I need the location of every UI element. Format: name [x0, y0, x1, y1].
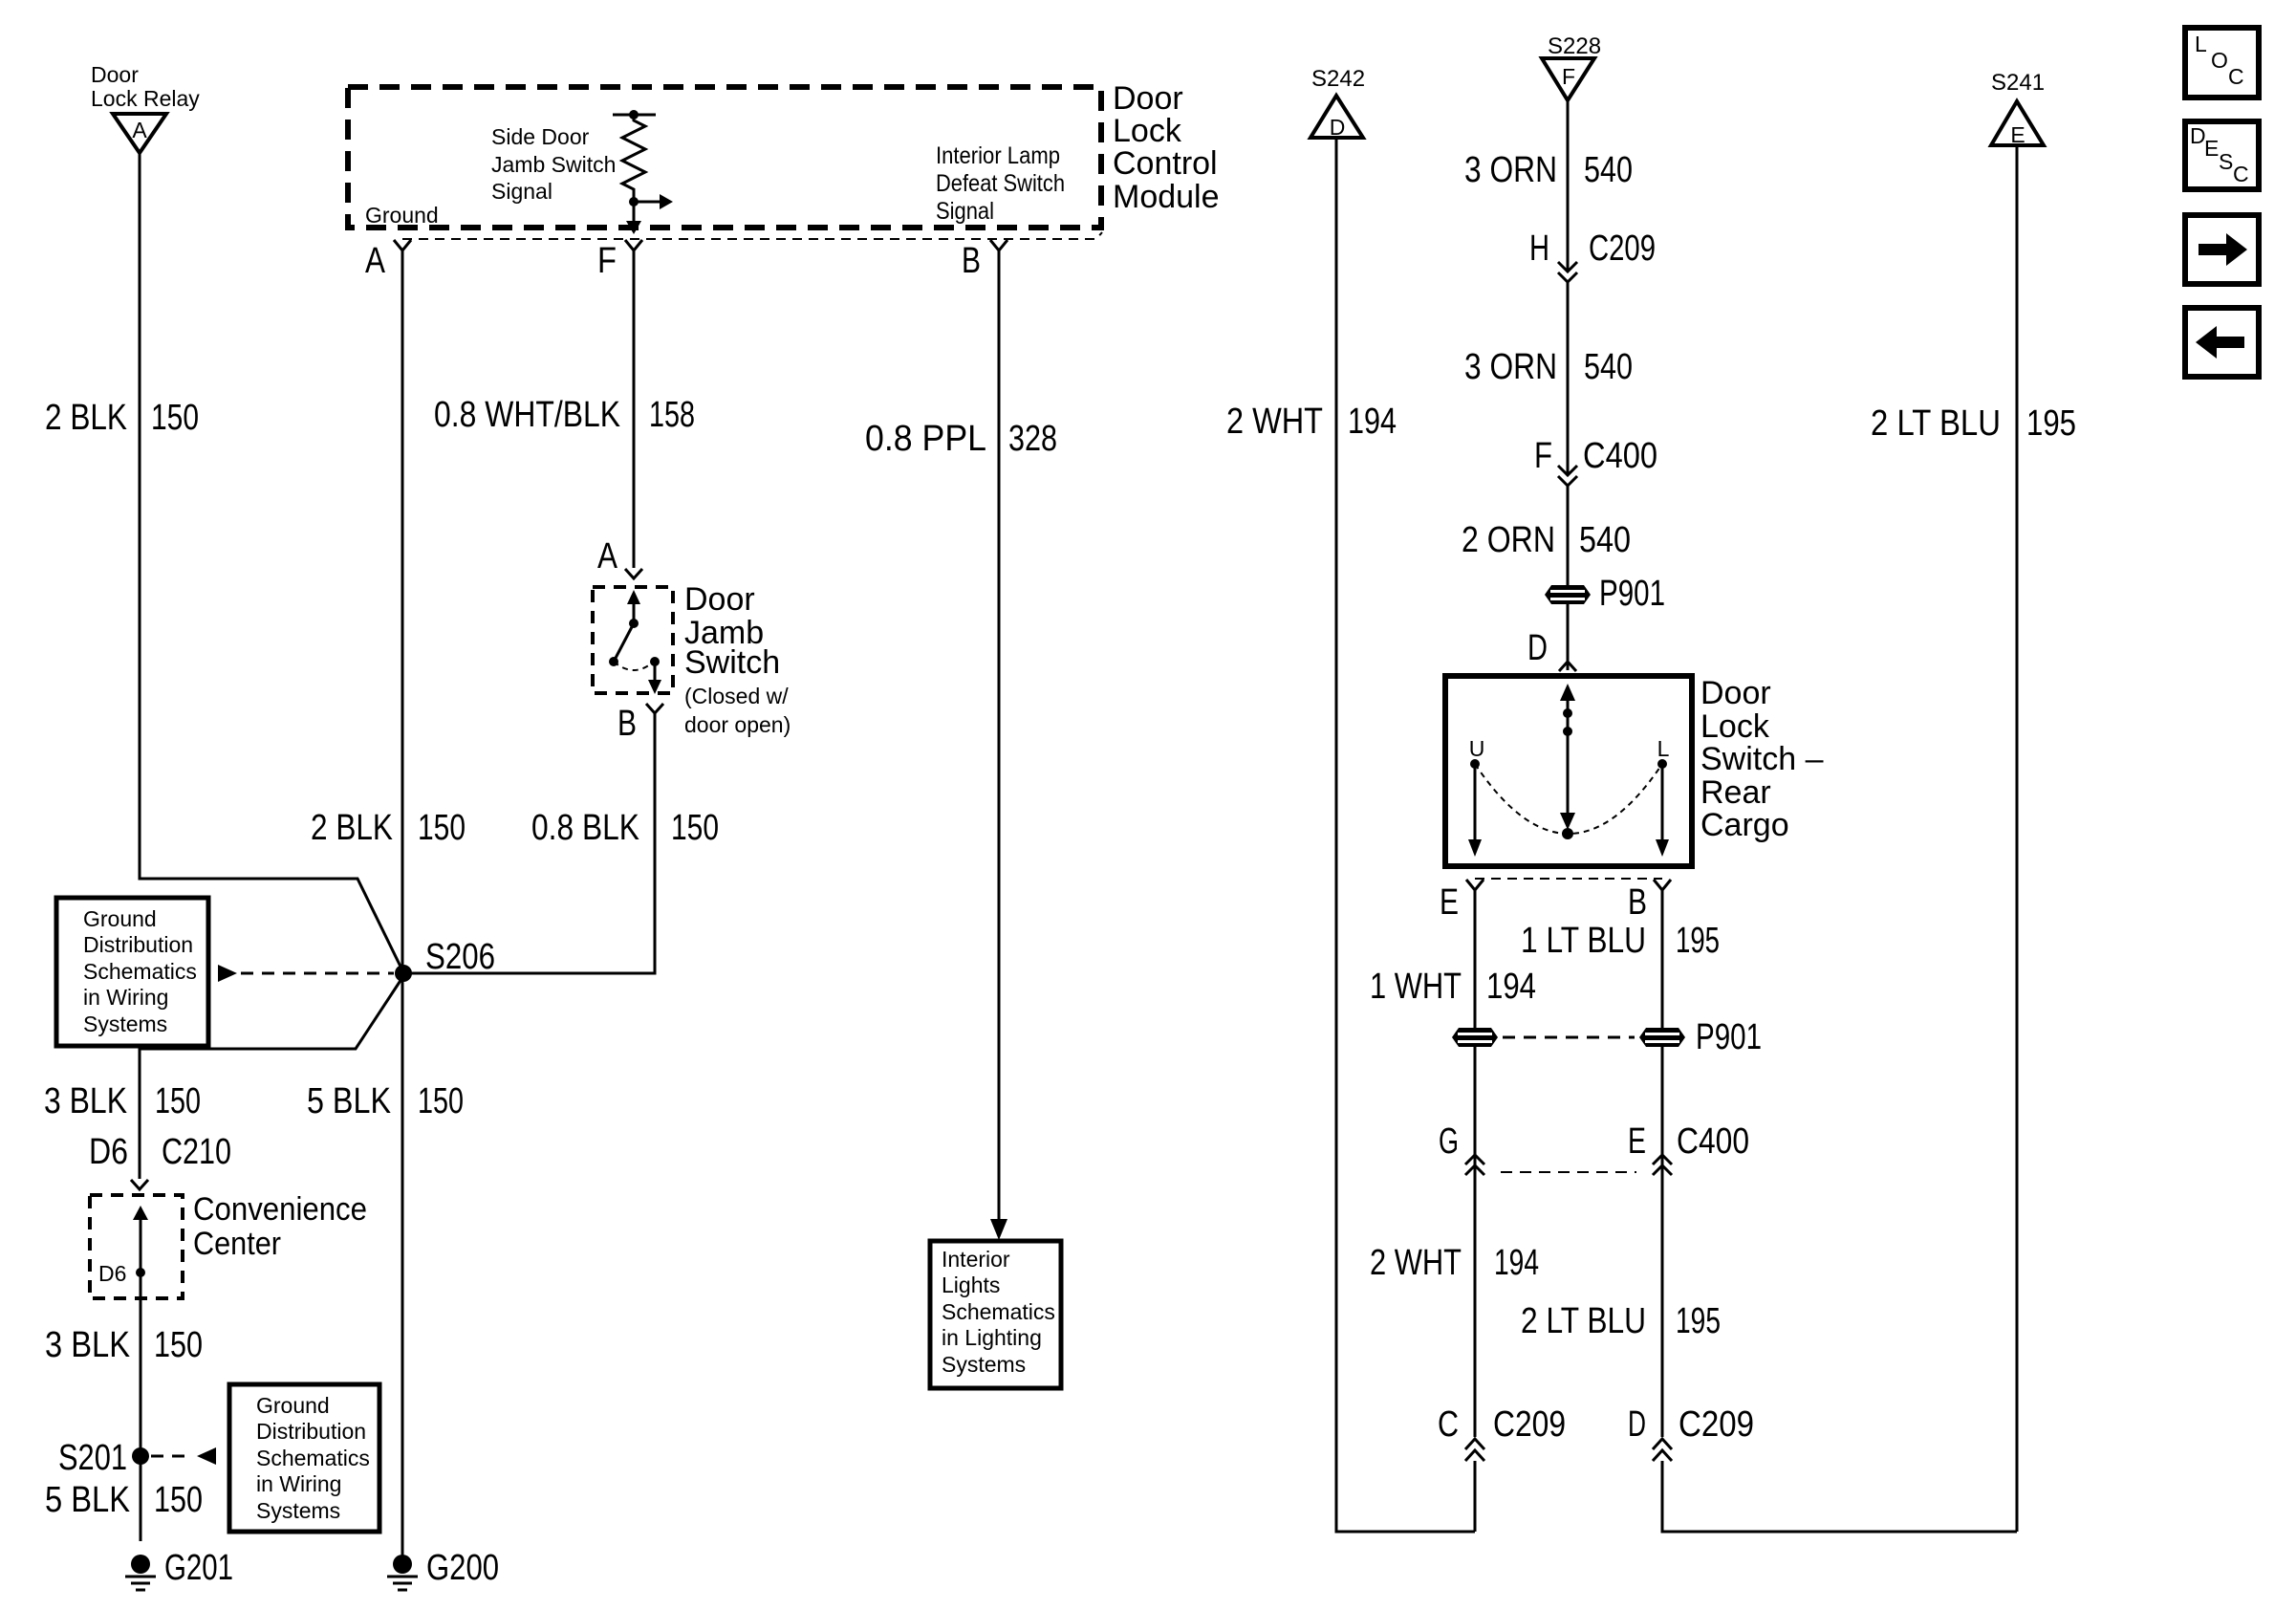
svg-text:S241: S241: [1991, 70, 2045, 96]
module pin B connector: [962, 240, 1007, 281]
Convenience Center dashed box: [90, 1195, 183, 1298]
svg-text:540: 540: [1584, 150, 1633, 190]
connector C210 pin D6: [89, 1132, 231, 1189]
wire 2 ORN 540: [1567, 486, 1570, 585]
svg-text:3 BLK: 3 BLK: [45, 1325, 130, 1365]
wire from C209 pin D to S241 loop: [1662, 1461, 2017, 1532]
wire B (0.8 PPL) from module to interior lights: [998, 250, 1001, 1220]
svg-text:in Wiring: in Wiring: [256, 1471, 341, 1496]
switch pin E: [1440, 880, 1484, 923]
Door Lock Control Module dashed box: [348, 87, 1101, 228]
svg-text:Lock Relay: Lock Relay: [91, 86, 200, 111]
connector C209 pin H: [1529, 228, 1656, 282]
Interior Lights Schematics box: [930, 1241, 1061, 1388]
door jamb switch pin B: [617, 704, 663, 744]
label 3 BLK 150 (below convenience center): [45, 1325, 203, 1365]
svg-text:Switch –: Switch –: [1700, 741, 1824, 777]
connector C400 pin F: [1534, 436, 1657, 486]
svg-text:540: 540: [1579, 520, 1631, 560]
Door Lock Relay connector triangle A: [113, 114, 166, 153]
svg-text:Systems: Systems: [256, 1498, 340, 1523]
svg-text:E: E: [2204, 136, 2219, 161]
arrowhead into interior lights box: [990, 1219, 1007, 1240]
svg-text:E: E: [1628, 1121, 1646, 1162]
svg-text:3 ORN: 3 ORN: [1464, 347, 1557, 387]
svg-text:Ground: Ground: [83, 906, 157, 931]
label 3 ORN 540 (lower): [1464, 347, 1633, 387]
wire 2 LT BLU below P901: [1661, 1047, 1664, 1437]
wire 2 BLK 150 from Door Lock Relay: [140, 153, 402, 970]
splice reference S241: [1991, 70, 2045, 147]
svg-text:D6: D6: [98, 1261, 126, 1286]
svg-text:2 BLK: 2 BLK: [311, 808, 393, 848]
svg-text:150: 150: [155, 1081, 201, 1121]
svg-text:E: E: [2010, 122, 2025, 147]
svg-text:G201: G201: [164, 1548, 233, 1588]
svg-text:Module: Module: [1113, 179, 1220, 215]
svg-text:328: 328: [1008, 419, 1057, 459]
door lock switch pin D: [1527, 628, 1576, 671]
svg-text:195: 195: [1676, 1301, 1721, 1341]
svg-text:Door: Door: [1113, 80, 1183, 117]
svg-text:D: D: [1527, 628, 1548, 668]
svg-text:in Wiring: in Wiring: [83, 985, 168, 1010]
wire from C209 pin C to S242 loop: [1474, 1461, 1477, 1532]
svg-text:C209: C209: [1589, 228, 1656, 269]
svg-text:2 LT BLU: 2 LT BLU: [1521, 1301, 1646, 1341]
splice reference S242: [1310, 66, 1365, 140]
door lock switch common blade: [1560, 684, 1575, 839]
door lock switch contact U: [1468, 736, 1484, 857]
svg-text:C210: C210: [162, 1132, 231, 1172]
ground distribution reference box (upper): [56, 898, 208, 1046]
svg-text:Convenience: Convenience: [193, 1191, 367, 1228]
svg-text:Rear: Rear: [1700, 774, 1771, 811]
module pin strip dashed line: [402, 232, 1102, 239]
svg-text:150: 150: [418, 1081, 464, 1121]
svg-text:150: 150: [671, 808, 719, 848]
svg-text:B: B: [962, 241, 981, 281]
svg-text:S201: S201: [58, 1438, 127, 1478]
wire 1 LT BLU from switch pin B: [1661, 890, 1664, 1028]
svg-text:0.8 WHT/BLK: 0.8 WHT/BLK: [434, 395, 620, 435]
label 2 BLK 150 (wire A): [311, 808, 466, 848]
svg-text:1 WHT: 1 WHT: [1370, 967, 1462, 1007]
Door Jamb Switch dashed box: [593, 587, 673, 693]
Door Lock Switch - Rear Cargo label: [1700, 675, 1824, 843]
svg-text:Ground: Ground: [256, 1393, 330, 1418]
svg-text:194: 194: [1494, 1243, 1539, 1283]
label 0.8 PPL 328: [865, 419, 1057, 459]
grommet P901 (right): [1639, 1017, 1762, 1057]
wire through convenience center with up arrow: [98, 1206, 148, 1541]
door jamb switch pin A: [597, 536, 642, 578]
svg-text:Lights: Lights: [942, 1273, 1000, 1297]
dashed link C400: [1501, 1171, 1636, 1173]
wire 1 WHT from switch pin E: [1474, 890, 1477, 1028]
svg-text:A: A: [132, 118, 147, 142]
svg-text:150: 150: [151, 398, 199, 438]
grommet P901 (top): [1545, 574, 1665, 614]
svg-text:2 BLK: 2 BLK: [45, 398, 127, 438]
wire from P901 to door lock switch pin D: [1567, 604, 1570, 670]
svg-text:Center: Center: [193, 1226, 281, 1262]
svg-text:C: C: [2228, 64, 2244, 89]
svg-text:A: A: [365, 241, 386, 281]
svg-text:U: U: [1469, 736, 1485, 761]
svg-text:C: C: [1438, 1404, 1459, 1445]
svg-text:door open): door open): [684, 712, 791, 737]
svg-text:Distribution: Distribution: [83, 932, 193, 957]
wire F from module pin to door jamb switch: [633, 250, 636, 568]
svg-text:C400: C400: [1583, 436, 1657, 476]
connector C209 pin C: [1438, 1404, 1566, 1461]
svg-text:2 LT BLU: 2 LT BLU: [1871, 403, 2001, 444]
door lock switch travel arc: [1475, 764, 1662, 834]
splice reference S228: [1542, 33, 1601, 100]
module pin F connector: [597, 240, 642, 281]
Door Lock Relay label: [91, 62, 200, 111]
legend LOC box: [2185, 28, 2259, 98]
svg-text:2 WHT: 2 WHT: [1226, 402, 1323, 442]
svg-text:Schematics: Schematics: [83, 959, 197, 984]
svg-text:Door: Door: [91, 62, 139, 87]
svg-text:S242: S242: [1311, 66, 1365, 92]
svg-text:(Closed w/: (Closed w/: [684, 684, 789, 708]
svg-text:C400: C400: [1677, 1121, 1749, 1162]
svg-text:C: C: [2233, 162, 2249, 186]
svg-text:G: G: [1439, 1121, 1459, 1162]
svg-text:3 BLK: 3 BLK: [44, 1081, 127, 1121]
svg-text:Schematics: Schematics: [942, 1299, 1055, 1324]
svg-text:S206: S206: [425, 937, 495, 977]
svg-text:E: E: [1440, 882, 1459, 923]
svg-text:H: H: [1529, 228, 1549, 269]
module pin A connector: [365, 240, 411, 281]
svg-text:B: B: [1628, 882, 1647, 923]
svg-text:Cargo: Cargo: [1700, 807, 1789, 843]
ground distribution reference box (lower): [229, 1384, 379, 1532]
label 1 WHT 194: [1370, 967, 1536, 1007]
svg-text:2 ORN: 2 ORN: [1462, 520, 1555, 560]
svg-text:F: F: [1534, 436, 1552, 476]
svg-text:Defeat Switch: Defeat Switch: [936, 170, 1065, 197]
svg-text:150: 150: [154, 1480, 203, 1520]
label 2 BLK 150 (relay wire): [45, 398, 199, 438]
Door Lock Control Module label: [1113, 80, 1220, 215]
switch pin strip dashed line: [1475, 878, 1662, 880]
svg-text:Distribution: Distribution: [256, 1419, 366, 1444]
svg-text:2 WHT: 2 WHT: [1370, 1243, 1462, 1283]
label 2 WHT 194 (lower): [1370, 1243, 1539, 1283]
svg-text:Door: Door: [684, 581, 755, 618]
svg-text:1 LT BLU: 1 LT BLU: [1521, 921, 1646, 961]
svg-text:Signal: Signal: [491, 179, 552, 204]
wire 2 LT BLU 195 from S241: [2016, 145, 2019, 1532]
svg-text:Ground: Ground: [365, 203, 439, 228]
svg-text:C209: C209: [1679, 1404, 1754, 1445]
svg-text:D6: D6: [89, 1132, 128, 1172]
label 2 ORN 540: [1462, 520, 1631, 560]
svg-text:Jamb Switch: Jamb Switch: [491, 152, 616, 177]
svg-text:C209: C209: [1493, 1404, 1566, 1445]
svg-text:D: D: [1628, 1404, 1646, 1445]
svg-text:in Lighting: in Lighting: [942, 1325, 1042, 1350]
svg-text:0.8 PPL: 0.8 PPL: [865, 419, 986, 459]
svg-text:S: S: [2219, 149, 2233, 174]
wire 3 ORN 540 from S228: [1567, 100, 1570, 271]
svg-text:Control: Control: [1113, 145, 1218, 182]
svg-text:S228: S228: [1548, 33, 1601, 59]
label 0.8 WHT/BLK 158: [434, 395, 695, 435]
connector C209 pin D: [1628, 1404, 1754, 1461]
svg-text:P901: P901: [1599, 574, 1665, 614]
wire 0.8 BLK 150 from jamb switch to S206: [403, 713, 655, 973]
svg-text:L: L: [1657, 736, 1670, 761]
ground G200: [387, 1548, 499, 1590]
svg-text:D: D: [1330, 115, 1346, 140]
svg-text:Interior Lamp: Interior Lamp: [936, 142, 1060, 169]
svg-text:195: 195: [2026, 403, 2076, 444]
svg-text:F: F: [1562, 64, 1575, 89]
label 2 LT BLU 195 (S241 wire): [1871, 403, 2076, 444]
Convenience Center label: [193, 1191, 367, 1262]
label 1 LT BLU 195: [1521, 921, 1720, 961]
Side Door Jamb Switch Signal label inside module: [491, 124, 616, 204]
wire 3 ORN 540 (below C209): [1567, 282, 1570, 474]
svg-text:P901: P901: [1696, 1017, 1762, 1057]
Door Jamb Switch label: [684, 581, 791, 737]
connector C400 pin G: [1439, 1121, 1484, 1175]
wire 2 WHT 194 from S242: [1336, 138, 1475, 1532]
splice S201: [58, 1438, 149, 1478]
legend right-arrow box: [2185, 215, 2259, 284]
svg-text:F: F: [597, 241, 617, 281]
svg-text:Lock: Lock: [1113, 113, 1182, 149]
wire 2 WHT below P901: [1474, 1047, 1477, 1437]
svg-text:5 BLK: 5 BLK: [45, 1480, 130, 1520]
svg-text:Door: Door: [1700, 675, 1771, 711]
label 5 BLK 150 (wire A below S206): [307, 1081, 464, 1121]
svg-text:150: 150: [154, 1325, 203, 1365]
Door Lock Switch - Rear Cargo box: [1445, 676, 1692, 866]
svg-text:158: 158: [649, 395, 695, 435]
svg-text:O: O: [2211, 48, 2228, 73]
label 3 ORN 540 (upper): [1464, 150, 1633, 190]
arrow right from resistor node: [634, 194, 673, 209]
door jamb switch contacts and blade: [609, 590, 661, 694]
svg-text:5 BLK: 5 BLK: [307, 1081, 391, 1121]
wire A from module pin to S206 and G200: [401, 250, 404, 1556]
svg-text:Schematics: Schematics: [256, 1446, 370, 1470]
legend left-arrow box: [2185, 308, 2259, 377]
label 3 BLK 150: [44, 1081, 201, 1121]
svg-text:0.8 BLK: 0.8 BLK: [531, 808, 639, 848]
svg-text:Systems: Systems: [942, 1352, 1026, 1377]
svg-text:B: B: [617, 704, 637, 744]
grommet P901 (left): [1452, 1028, 1498, 1047]
legend DESC box: [2185, 121, 2259, 189]
label 2 LT BLU 195 (lower): [1521, 1301, 1721, 1341]
door lock switch contact L: [1656, 736, 1670, 857]
resistor inside module (side door jamb switch pull-up): [613, 110, 656, 207]
svg-text:194: 194: [1348, 402, 1397, 442]
switch pin B: [1628, 880, 1671, 923]
label 0.8 BLK 150: [531, 808, 719, 848]
svg-text:195: 195: [1676, 921, 1720, 961]
svg-text:Lock: Lock: [1700, 708, 1770, 745]
svg-text:194: 194: [1486, 967, 1536, 1007]
svg-text:G200: G200: [426, 1548, 499, 1588]
svg-text:Signal: Signal: [936, 198, 994, 225]
svg-text:540: 540: [1584, 347, 1633, 387]
wire from S206 down-left to 3 BLK branch: [140, 976, 403, 1179]
svg-text:A: A: [597, 536, 618, 577]
arrow down from resistor node to module pin F: [626, 202, 641, 234]
svg-text:150: 150: [418, 808, 466, 848]
label 5 BLK 150 (above G201): [45, 1480, 203, 1520]
svg-text:3 ORN: 3 ORN: [1464, 150, 1557, 190]
label 2 WHT 194 (S242 wire): [1226, 402, 1397, 442]
ground G201: [125, 1548, 233, 1590]
svg-text:Switch: Switch: [684, 644, 780, 681]
connector C400 pin E: [1628, 1121, 1749, 1175]
svg-text:Side Door: Side Door: [491, 124, 590, 149]
svg-text:Interior: Interior: [942, 1247, 1010, 1272]
dashed pointer from S201 to box: [151, 1447, 216, 1465]
Interior Lamp Defeat Switch Signal label inside module: [936, 142, 1065, 225]
splice S206: [395, 937, 495, 982]
svg-text:L: L: [2195, 32, 2207, 56]
dashed link between P901 grommets: [1503, 1036, 1635, 1039]
svg-text:Systems: Systems: [83, 1012, 167, 1036]
dashed pointer from box to S206: [218, 965, 394, 982]
